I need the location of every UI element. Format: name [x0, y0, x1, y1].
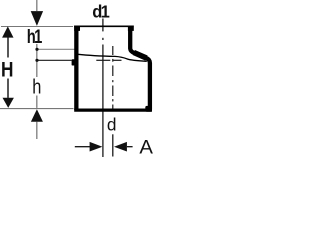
svg-text:h: h [32, 75, 41, 98]
svg-text:d: d [107, 114, 117, 134]
svg-text:A: A [139, 137, 153, 159]
svg-text:d1: d1 [92, 1, 110, 22]
svg-text:H: H [1, 58, 13, 82]
svg-text:h1: h1 [27, 25, 43, 48]
